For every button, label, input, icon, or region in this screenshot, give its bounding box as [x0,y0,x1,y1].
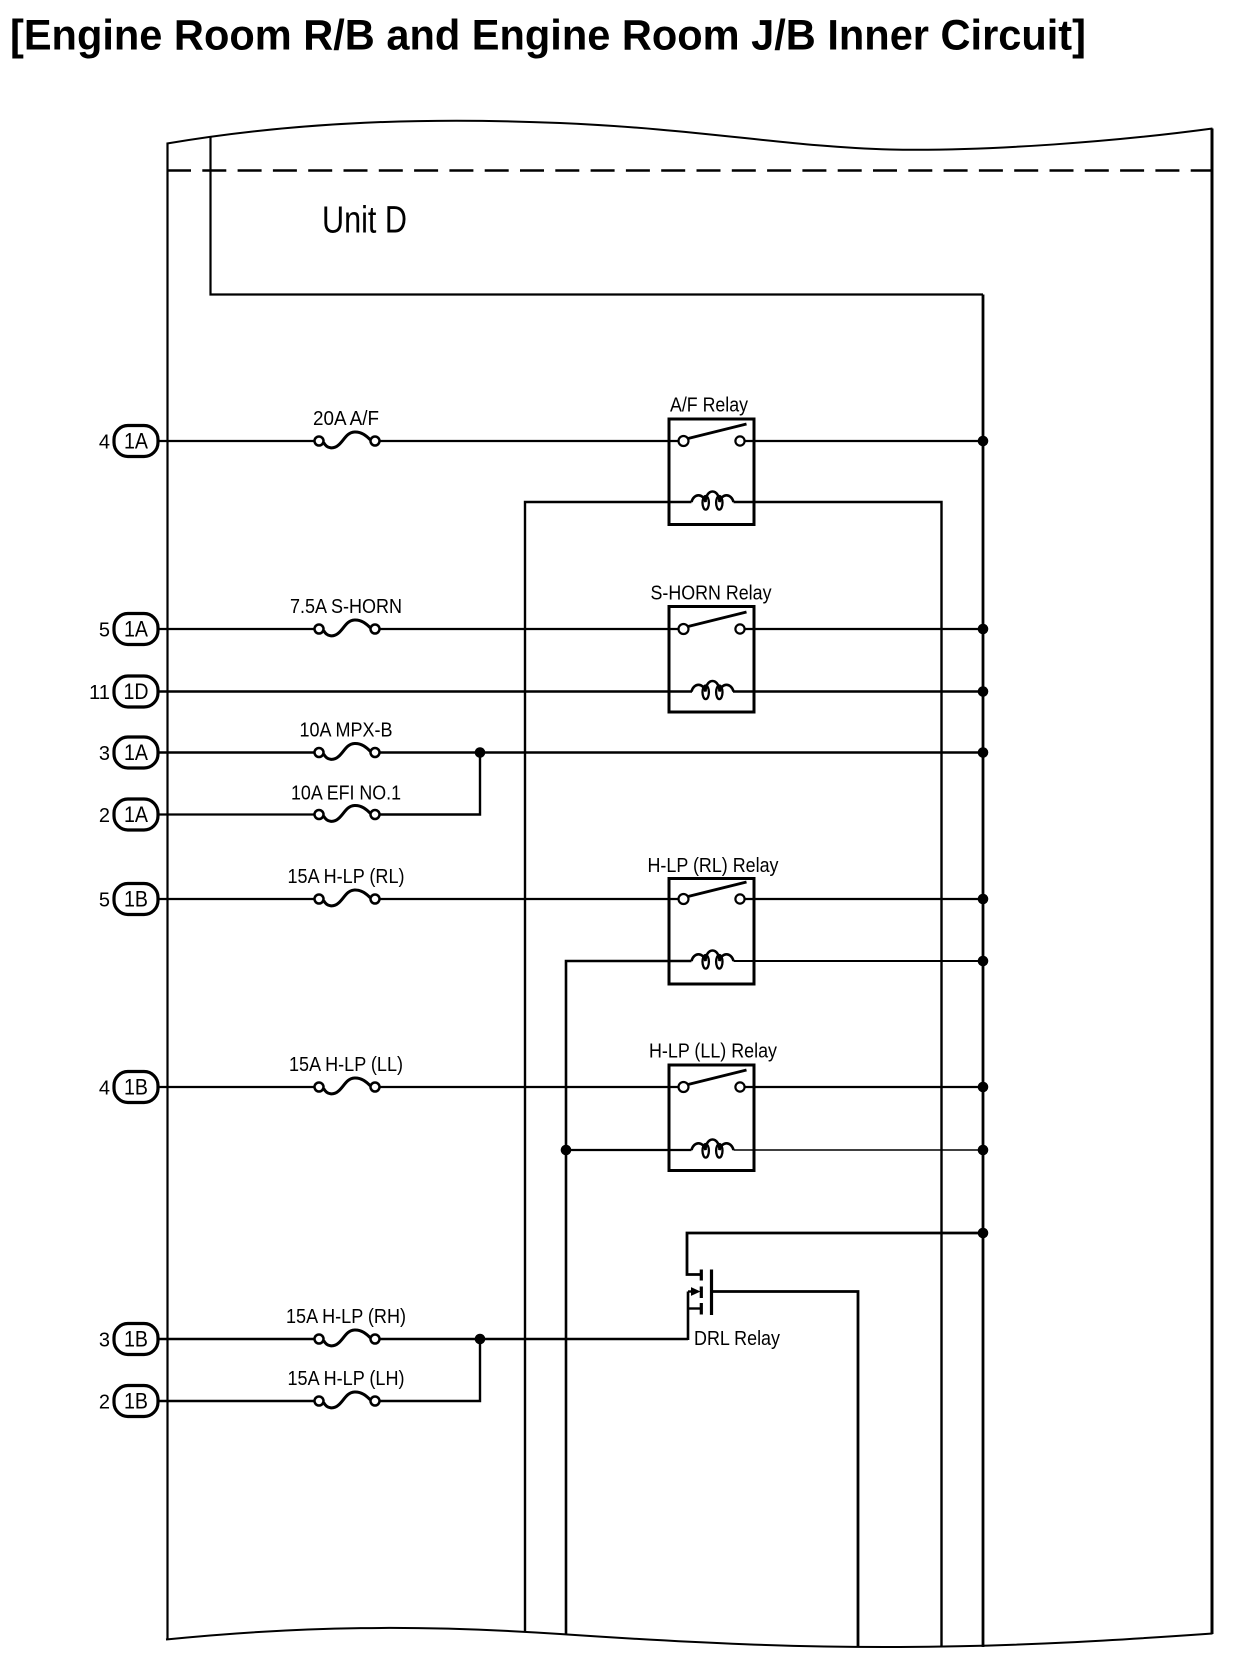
A/F relay switch [679,424,747,446]
wire S-HORN relay contact to bus [745,628,983,630]
S-HORN relay coil [692,681,734,699]
svg-text:1B: 1B [124,1389,148,1414]
svg-text:1A: 1A [124,429,148,454]
node bus/RL coil [978,956,989,967]
border left edge [166,143,168,1641]
border top wavy edge [167,121,1213,150]
connector 1B pin 3 [114,1324,158,1355]
wire DRL source down to H-LP RH row [687,1292,690,1341]
svg-text:1B: 1B [124,1327,148,1352]
H-LP RL relay coil [692,951,734,969]
fuse 10A MPX-B [315,743,380,759]
node bus/S-HORN coil [978,686,989,697]
wire DRL gate to right branch [713,1292,858,1648]
svg-text:H-LP (RL) Relay: H-LP (RL) Relay [648,855,779,877]
fuse 7.5A S-HORN [315,620,380,636]
wire 4(1A) to fuse [158,440,314,442]
node bus/MPX-B [978,747,989,758]
connector 1A pin 5 [114,614,158,645]
node bus/DRL drain [978,1228,989,1239]
connector 1A pin 2 [114,799,158,830]
DRL gate bar [710,1270,713,1316]
relay U3 H-LP (RL) Relay box [669,879,754,985]
svg-text:1D: 1D [124,679,149,704]
wire 2(1B) to fuse [158,1400,314,1402]
dashed separator line [167,169,1212,172]
DRL source stub [688,1307,700,1309]
wire 3(1B) to fuse [158,1338,314,1340]
svg-text:7.5A S-HORN: 7.5A S-HORN [290,596,402,618]
connector 1B pin 4 [114,1072,158,1103]
fuse 15A H-LP (RL) [315,890,380,906]
svg-text:1A: 1A [124,617,148,642]
node bus/S-HORN switch [978,624,989,635]
svg-text:11: 11 [89,682,110,704]
node bus/LL coil [978,1145,989,1156]
H-LP LL relay switch [679,1070,747,1092]
svg-text:[Engine Room R/B and Engine Ro: [Engine Room R/B and Engine Room J/B Inn… [10,12,1086,60]
svg-text:10A EFI NO.1: 10A EFI NO.1 [291,783,401,805]
wire H-LP LL relay contact to bus [745,1086,983,1088]
svg-text:A/F Relay: A/F Relay [670,395,748,417]
svg-text:H-LP (LL) Relay: H-LP (LL) Relay [649,1041,777,1063]
svg-text:15A H-LP (RL): 15A H-LP (RL) [288,866,405,888]
wire fuse to A/F relay contact [380,440,679,442]
wire 5(1B) to fuse [158,898,314,900]
wire 11(1D) to S-HORN coil [158,690,692,692]
Unit D boundary line [211,137,984,295]
relay U2 S-HORN Relay box [669,607,754,713]
node bus/RL switch [978,894,989,905]
connector 1A pin 4 [114,426,158,457]
svg-text:Unit D: Unit D [322,200,407,242]
wire 5(1A) to fuse [158,628,314,630]
wire fuse to DRL source [380,1338,688,1340]
wire 4(1B) to fuse [158,1086,314,1088]
fuse 20A A/F [315,432,380,448]
connector 1B pin 2 [114,1386,158,1417]
svg-text:1A: 1A [124,740,148,765]
fuse 10A EFI NO.1 [315,805,380,821]
svg-text:DRL Relay: DRL Relay [694,1328,780,1350]
svg-text:15A H-LP (LH): 15A H-LP (LH) [288,1368,405,1390]
relay U1 A/F Relay box [669,419,754,525]
svg-text:1B: 1B [124,887,148,912]
node RH/LH junction [475,1334,486,1345]
connector 1D pin 11 [114,676,158,707]
S-HORN relay switch [679,612,747,634]
wire A/F relay contact to bus [745,440,983,442]
wire 3(1A) to fuse [158,751,314,753]
wire H-LP RL relay contact to bus [745,898,983,900]
connector 1A pin 3 [114,737,158,768]
H-LP RL relay switch [679,882,747,904]
wire A/F coil right down [734,502,942,1647]
svg-text:15A H-LP (LL): 15A H-LP (LL) [289,1054,403,1076]
A/F relay coil [692,492,734,510]
svg-text:10A MPX-B: 10A MPX-B [300,720,393,742]
wire fuse to bus MPX-B [380,751,983,753]
wire 2(1A) to fuse [158,813,314,815]
svg-text:1B: 1B [124,1075,148,1100]
svg-text:4: 4 [99,1078,110,1100]
wire DRL drain feed from bus [687,1233,983,1275]
svg-text:3: 3 [99,743,110,765]
wire fuse to H-LP LL relay contact [380,1086,679,1088]
wire LL coil left to branch [566,1149,692,1151]
border right edge [1211,129,1214,1635]
svg-text:2: 2 [99,805,110,827]
wire fuse to junction riser [380,753,480,815]
wire RL coil right to bus [734,960,984,962]
svg-text:S-HORN Relay: S-HORN Relay [651,583,772,605]
wire LL coil right to bus [734,1149,984,1151]
bus B+ vertical [982,295,985,1648]
svg-text:5: 5 [99,620,110,642]
border bottom wavy edge [166,1628,1213,1647]
fuse 15A H-LP (RH) [315,1330,380,1346]
wire A/F coil left to ground branch [525,502,692,1632]
node bus/A-F switch [978,436,989,447]
svg-text:1A: 1A [124,802,148,827]
svg-text:4: 4 [99,432,110,454]
svg-text:20A A/F: 20A A/F [313,408,379,430]
node LL coil/branch [561,1145,572,1156]
svg-text:2: 2 [99,1392,110,1414]
connector 1B pin 5 [114,884,158,915]
svg-text:3: 3 [99,1330,110,1352]
fuse 15A H-LP (LH) [315,1392,380,1408]
wire S-HORN coil to bus [733,690,983,692]
fuse 15A H-LP (LL) [315,1078,380,1094]
relay U4 H-LP (LL) Relay box [669,1065,754,1171]
node bus/LL switch [978,1082,989,1093]
wire fuse to junction riser LH [380,1339,480,1401]
svg-text:15A H-LP (RH): 15A H-LP (RH) [286,1306,406,1328]
wire fuse to S-HORN relay contact [380,628,679,630]
H-LP LL relay coil [692,1140,734,1158]
node MPX-B/EFI junction [475,747,486,758]
wire fuse to H-LP RL relay contact [380,898,679,900]
DRL body arrow [688,1287,701,1296]
transistor Q1 DRL Relay channel [700,1270,703,1315]
svg-text:5: 5 [99,890,110,912]
wire RL coil left to branch [566,961,692,1635]
